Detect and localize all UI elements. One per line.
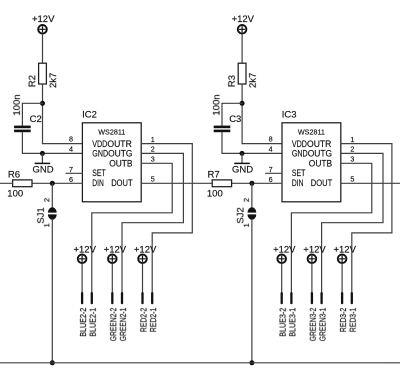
svg-text:OUTB: OUTB — [109, 158, 132, 168]
supply +12V symbol (LED BLUE2 feed) — [78, 254, 87, 263]
svg-text:+12V: +12V — [232, 14, 255, 25]
connector pin RED3-2 — [341, 292, 343, 304]
wire DIN node to SJ2 — [251, 183, 253, 207]
wire data input to R6 — [0, 182, 13, 184]
svg-text:R7: R7 — [208, 169, 220, 180]
node junction DIN/SJ1 — [50, 181, 55, 186]
wire IC3 DOUT pin 5 to right edge — [341, 182, 400, 184]
wire C3 bottom lead — [221, 132, 223, 153]
supply +12V symbol (LED RED2 feed) — [138, 254, 147, 263]
svg-text:GND: GND — [92, 149, 108, 159]
wire GND net to pin 4 — [222, 152, 282, 154]
svg-text:+12V: +12V — [73, 245, 96, 256]
supply +12V symbol (top rail feed IC3) — [238, 25, 247, 34]
wire OUTR pin 1 to RED3-1 — [341, 144, 392, 292]
svg-text:GREEN3-1: GREEN3-1 — [318, 307, 328, 341]
wire OUTG pin 2 to GREEN2-1 — [122, 153, 183, 292]
connector pin BLUE2-2 — [81, 292, 83, 304]
IC IC2 (WS2811) body — [82, 123, 141, 202]
svg-text:OUTG: OUTG — [308, 149, 333, 159]
svg-text:100n: 100n — [12, 94, 23, 115]
wire +12V to R2 — [42, 34, 44, 63]
svg-text:+12V: +12V — [273, 245, 296, 256]
svg-text:DOUT: DOUT — [311, 178, 333, 188]
svg-text:4: 4 — [269, 144, 273, 153]
svg-text:C2: C2 — [30, 114, 42, 125]
wire GND net to pin 4 — [22, 152, 82, 154]
svg-text:VDD: VDD — [92, 139, 107, 149]
connector pin RED2-2 — [141, 292, 143, 304]
supply +12V symbol (top rail feed IC2) — [38, 25, 47, 34]
svg-text:2: 2 — [350, 145, 354, 154]
svg-text:GND: GND — [32, 165, 53, 176]
svg-text:5: 5 — [350, 175, 354, 184]
resistor R3 body — [238, 63, 246, 84]
wire +12V to RED2-2 pin — [142, 264, 144, 292]
svg-text:2k7: 2k7 — [48, 73, 59, 88]
connector pin GREEN2-1 — [121, 292, 123, 304]
wire to ground symbol — [241, 153, 243, 163]
wire OUTR pin 1 to RED2-1 — [141, 144, 192, 292]
wire OUTB pin 3 to BLUE3-1 — [291, 163, 371, 292]
svg-text:1: 1 — [350, 135, 354, 144]
wire IC2 DOUT pin 5 to R7 — [141, 182, 212, 184]
svg-text:3: 3 — [151, 155, 155, 164]
wire +12V to BLUE3-2 pin — [281, 264, 283, 292]
svg-text:DOUT: DOUT — [111, 178, 133, 188]
node junction VDD/C2 — [40, 101, 45, 106]
wire OUTG pin 2 to GREEN3-1 — [322, 153, 383, 292]
connector pin GREEN3-2 — [311, 292, 313, 304]
svg-text:BLUE3-1: BLUE3-1 — [287, 307, 297, 336]
svg-text:R3: R3 — [227, 75, 238, 87]
wire DIN node to SJ1 — [51, 183, 53, 207]
svg-text:SET: SET — [92, 168, 106, 178]
svg-text:SJ1: SJ1 — [36, 207, 47, 223]
wire R2 to VDD node — [42, 84, 44, 144]
svg-text:2: 2 — [242, 198, 251, 202]
svg-text:2: 2 — [151, 145, 155, 154]
connector pin RED3-1 — [351, 292, 353, 304]
connector pin GREEN3-1 — [320, 292, 322, 304]
svg-text:IC2: IC2 — [82, 110, 97, 121]
IC IC3 (WS2811) body — [282, 123, 341, 202]
node junction GND — [40, 151, 45, 156]
svg-text:VDD: VDD — [292, 139, 307, 149]
svg-text:7: 7 — [69, 165, 73, 174]
node junction VDD/C3 — [240, 101, 245, 106]
wire bottom common rail — [0, 362, 400, 364]
svg-text:6: 6 — [69, 175, 73, 184]
svg-text:5: 5 — [151, 175, 155, 184]
resistor R7 body — [212, 180, 231, 187]
svg-text:DIN: DIN — [292, 178, 304, 188]
connector pin BLUE2-1 — [91, 292, 93, 304]
svg-text:+12V: +12V — [104, 245, 127, 256]
svg-text:RED2-1: RED2-1 — [148, 307, 158, 332]
supply +12V symbol (LED BLUE3 feed) — [277, 254, 286, 263]
node junction GND — [240, 151, 245, 156]
connector pin GREEN2-2 — [111, 292, 113, 304]
svg-text:100: 100 — [207, 188, 223, 199]
supply +12V symbol (LED RED3 feed) — [338, 254, 347, 263]
svg-text:OUTG: OUTG — [108, 149, 133, 159]
svg-text:OUTR: OUTR — [107, 139, 131, 149]
capacitor C2 plates — [14, 126, 31, 133]
wire VDD to pin 8 — [43, 143, 83, 145]
connector pin BLUE3-1 — [290, 292, 292, 304]
svg-text:GREEN2-2: GREEN2-2 — [108, 307, 118, 341]
svg-text:+12V: +12V — [32, 14, 55, 25]
solder jumper SJ2 — [248, 207, 257, 219]
wire C2 bottom lead — [21, 132, 23, 153]
wire +12V to GREEN2-2 pin — [111, 264, 113, 292]
svg-text:OUTR: OUTR — [307, 139, 331, 149]
wire +12V to R3 — [241, 34, 243, 63]
svg-text:GND: GND — [292, 149, 308, 159]
svg-text:RED3-1: RED3-1 — [348, 307, 358, 332]
svg-text:1: 1 — [151, 135, 155, 144]
svg-text:R6: R6 — [8, 169, 20, 180]
svg-text:100: 100 — [7, 188, 23, 199]
svg-text:4: 4 — [69, 144, 73, 153]
svg-text:7: 7 — [269, 165, 273, 174]
svg-text:C3: C3 — [229, 114, 241, 125]
svg-text:GREEN2-1: GREEN2-1 — [118, 307, 128, 341]
supply +12V symbol (LED GREEN2 feed) — [108, 254, 117, 263]
svg-text:WS2811: WS2811 — [298, 127, 325, 136]
wire SJ1 to bottom rail — [51, 219, 53, 362]
wire +12V to BLUE2-2 pin — [81, 264, 83, 292]
svg-text:SET: SET — [292, 168, 306, 178]
svg-text:BLUE2-2: BLUE2-2 — [78, 307, 88, 336]
svg-text:DIN: DIN — [92, 178, 104, 188]
wire R6 to pin 6 DIN — [32, 182, 82, 184]
svg-text:RED3-2: RED3-2 — [338, 307, 348, 332]
svg-text:WS2811: WS2811 — [98, 127, 125, 136]
svg-text:BLUE3-2: BLUE3-2 — [278, 307, 288, 336]
svg-text:6: 6 — [269, 175, 273, 184]
wire to ground symbol — [41, 153, 43, 163]
wire OUTB pin 3 to BLUE2-1 — [92, 163, 172, 292]
pin 7 SET stub — [66, 172, 82, 174]
svg-text:SJ2: SJ2 — [235, 207, 246, 223]
wire C2 top lead — [21, 103, 23, 125]
svg-text:IC3: IC3 — [282, 110, 297, 121]
svg-text:1: 1 — [242, 223, 251, 227]
supply +12V symbol (LED GREEN3 feed) — [308, 254, 317, 263]
svg-text:OUTB: OUTB — [309, 158, 332, 168]
svg-text:GREEN3-2: GREEN3-2 — [308, 307, 318, 341]
wire SJ2 to bottom rail — [251, 219, 253, 362]
connector pin RED2-1 — [151, 292, 153, 304]
svg-text:100n: 100n — [211, 94, 222, 115]
svg-text:+12V: +12V — [333, 245, 356, 256]
wire +12V to RED3-2 pin — [341, 264, 343, 292]
pin 7 SET stub — [266, 172, 282, 174]
wire C3 top lead — [221, 103, 223, 125]
svg-text:8: 8 — [69, 134, 73, 143]
ground symbol (IC2) — [35, 162, 51, 164]
svg-text:8: 8 — [269, 134, 273, 143]
node junction DIN/SJ2 — [249, 181, 254, 186]
svg-text:+12V: +12V — [134, 245, 157, 256]
svg-text:3: 3 — [350, 155, 354, 164]
wire VDD to pin 8 — [242, 143, 282, 145]
wire node to C2 top — [22, 102, 42, 104]
resistor R6 body — [13, 180, 32, 187]
svg-text:2: 2 — [42, 198, 51, 202]
capacitor C3 plates — [214, 126, 231, 133]
node junction SJ2 / bottom rail — [249, 360, 254, 365]
ground symbol (IC3) — [234, 162, 250, 164]
svg-text:BLUE2-1: BLUE2-1 — [88, 307, 98, 336]
node junction SJ1 / bottom rail — [50, 360, 55, 365]
wire R3 to VDD node — [241, 84, 243, 144]
svg-text:1: 1 — [42, 223, 51, 227]
connector pin BLUE3-2 — [281, 292, 283, 304]
svg-text:GND: GND — [232, 165, 253, 176]
svg-text:R2: R2 — [27, 75, 38, 87]
svg-text:+12V: +12V — [303, 245, 326, 256]
resistor R2 body — [39, 63, 47, 84]
svg-text:2k7: 2k7 — [248, 73, 259, 88]
solder jumper SJ1 — [48, 207, 57, 219]
wire node to C3 top — [222, 102, 242, 104]
wire +12V to GREEN3-2 pin — [311, 264, 313, 292]
wire R7 to pin 6 DIN — [232, 182, 282, 184]
svg-text:RED2-2: RED2-2 — [138, 307, 148, 332]
